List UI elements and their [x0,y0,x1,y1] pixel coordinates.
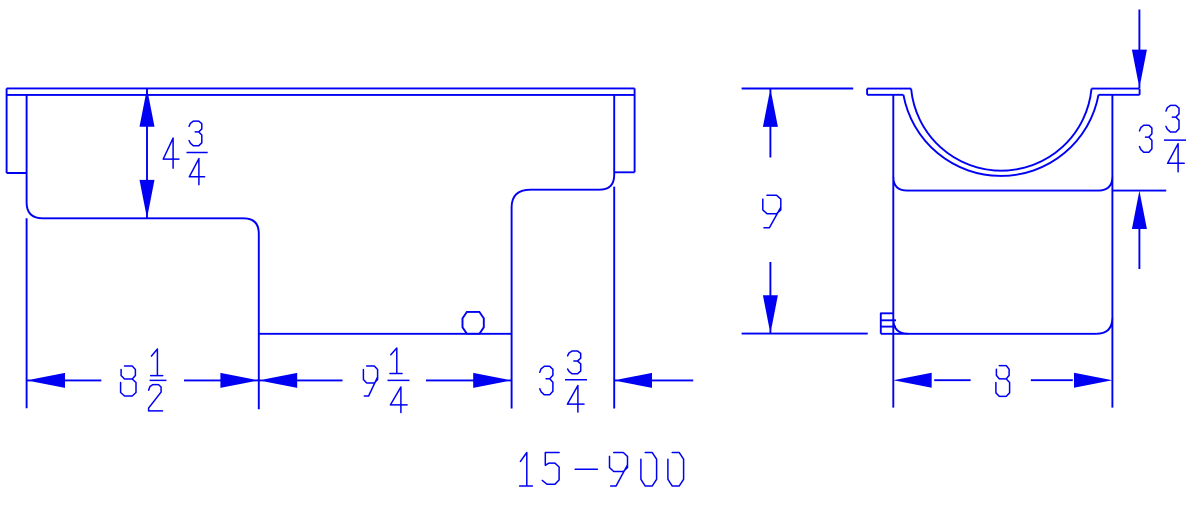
extension line at sump right wall x=511.6 [511,334,513,409]
text 4 3/4 fraction bar [187,152,208,154]
arrow 3 3/4 outside right [614,373,652,388]
dim line 9 upper segment [769,89,771,158]
text 9 1/4 whole digit [363,366,377,396]
end view: left flange tab bottom [867,94,903,96]
ext line top for 9 dim [742,88,854,90]
text 4 3/4 whole digit [163,138,179,168]
arrow 9 1/4 left [259,373,297,388]
text 8 1/2 fraction denominator [149,385,163,411]
text 3 3/4 whole digit [540,366,553,395]
part number 15-900 [520,453,533,487]
arrow 9 top [763,89,778,127]
arrow 3 3/4 down at flange [1132,50,1147,88]
end view: right flange tab end [1139,89,1141,95]
text 9 1/4 fraction denominator [390,387,407,413]
dim tail line right of 3 3/4 [614,379,694,381]
dim line 8 right segment [1031,379,1073,381]
text 3 3/4 fraction numerator [568,351,581,374]
text 8 dim [996,366,1010,397]
text 3 3/4 fraction denominator [567,386,584,413]
side view: pan inner profile [27,95,615,334]
dim line 3 3/4 below [1138,228,1140,269]
dim line 8 left segment [934,379,970,381]
ext line bottom for 9 dim [742,333,868,335]
arrow 8 right [1074,373,1112,388]
arrow 9 bottom [763,295,778,333]
end view: bottom-right fillet [1097,317,1113,334]
text 3 3/4 end whole digit [1140,125,1152,152]
dim line segment right of 9 1/4 text [426,379,512,381]
end view: left flange tab end [866,89,868,95]
text 3 3/4 end fraction bar [1164,139,1186,141]
side view: flange top edge [7,87,635,89]
arrow 8 1/2 right [220,373,258,388]
end view: left flange tab top [867,88,911,90]
extension line at left wall x=26.6 [26,218,28,408]
side view: left rim outer wall [6,88,8,173]
arrow 3 3/4 up at shelf [1132,191,1147,229]
dim line segment left of 8 1/2 text [27,379,102,381]
dim line 9 lower segment [769,262,771,334]
end view: bottom line [881,333,1097,335]
text 9 1/4 fraction bar [388,379,410,381]
arrow 8 1/2 left [27,373,65,388]
text 3 3/4 end fraction numerator [1166,105,1179,132]
end view: right wall [1111,95,1113,408]
end view: interior shelf line with fillets [893,177,1112,191]
dim line segment right of 8 1/2 text [184,379,343,381]
end view: bottom-left fillet [893,319,908,334]
arrow 4 3/4 top [140,88,155,126]
text 8 1/2 fraction numerator [151,349,163,376]
end view: right flange tab top [1092,88,1140,90]
end view: drain boss bracket [881,313,894,334]
end view: bowl outer arc [903,95,1098,176]
end view: right flange tab bottom [1099,94,1140,96]
end view: left wall [892,95,894,408]
arrow 9 1/4 right [473,373,511,388]
text 4 3/4 fraction numerator [189,121,202,146]
dim line 4 3/4 vertical [146,88,148,218]
dim line 3 3/4 above [1138,10,1140,89]
text 9 1/4 fraction numerator [390,348,402,374]
text 8 1/2 whole digit [121,366,136,396]
side view: right rim outer wall [634,88,636,172]
side view: left rim bottom [7,172,27,174]
text 4 3/4 fraction denominator [189,159,204,185]
side view: right rim bottom [614,171,634,173]
ext line at shelf level [1112,190,1166,192]
arrow 4 3/4 bottom [140,180,155,218]
extension line at right step x=614.2 [613,187,615,409]
text 9 dim [763,195,781,227]
side view: drain plug octagon [463,312,484,334]
text 8 1/2 fraction bar [150,379,167,381]
text 3 3/4 end fraction denominator [1168,144,1185,172]
side view: flange bottom edge [7,94,635,96]
text 3 3/4 fraction bar [565,379,587,381]
extension line at sump left wall x=258.8 [258,334,260,410]
end view: bowl inner arc [911,89,1091,171]
arrow 8 left [893,373,931,388]
